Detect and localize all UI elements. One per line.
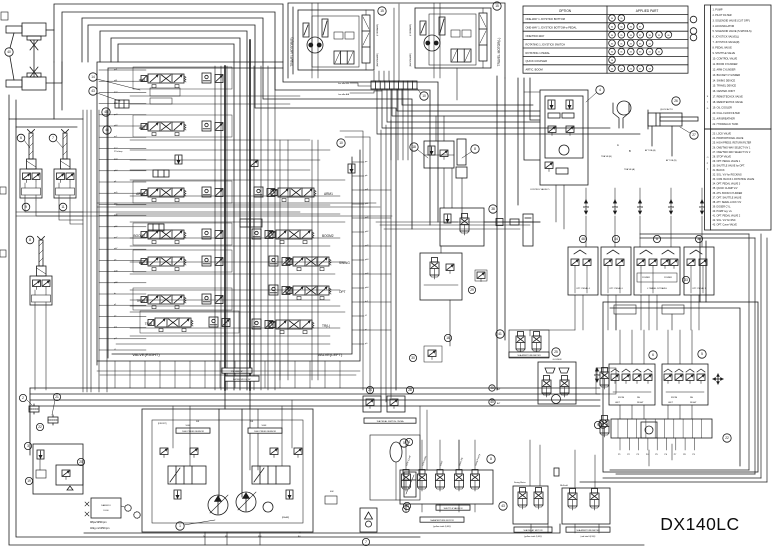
label circle 5 bbox=[400, 439, 408, 447]
label circle 44 bbox=[612, 235, 619, 242]
svg-text:B: B bbox=[629, 149, 631, 153]
svg-text:37. OPT. SHUTTLE VALVE: 37. OPT. SHUTTLE VALVE bbox=[713, 196, 742, 199]
stop valve right (9) bbox=[596, 368, 616, 395]
svg-text:2: 2 bbox=[22, 396, 24, 400]
svg-text:(FORWARD): (FORWARD) bbox=[376, 24, 379, 36]
svg-text:24: 24 bbox=[611, 69, 614, 71]
svg-text:30: 30 bbox=[611, 43, 614, 45]
label circle 15 bbox=[493, 2, 501, 10]
svg-text:ROTATING 1 JOYSTICK SWITCH: ROTATING 1 JOYSTICK SWITCH bbox=[526, 42, 566, 46]
svg-text:16. CENTER JOINT: 16. CENTER JOINT bbox=[713, 90, 736, 93]
svg-text:12. ARM CYLINDER: 12. ARM CYLINDER bbox=[713, 68, 736, 71]
svg-text:TR(L): TR(L) bbox=[322, 324, 330, 328]
svg-text:FROM: FROM bbox=[618, 397, 624, 399]
label circle 40 bbox=[5, 48, 13, 56]
svg-text:[REAR]: [REAR] bbox=[282, 516, 289, 519]
svg-text:DAEWOO: DAEWOO bbox=[101, 504, 111, 507]
svg-text:31. BLOCK: 31. BLOCK bbox=[713, 169, 725, 172]
manifold block (9/22) bbox=[611, 419, 712, 438]
svg-text:RIGHT: RIGHT bbox=[637, 402, 644, 404]
wire left feed bus verticals bbox=[83, 110, 107, 392]
svg-text:11: 11 bbox=[61, 205, 65, 209]
svg-text:A/T: A/T bbox=[497, 388, 501, 391]
label circle 38 bbox=[695, 235, 702, 242]
svg-text:ARM1: ARM1 bbox=[324, 192, 333, 196]
svg-text:RIGHT: RIGHT bbox=[690, 402, 697, 404]
svg-text:26. ONE/TWO-WAY SELECT V/V 1: 26. ONE/TWO-WAY SELECT V/V 1 bbox=[713, 146, 751, 149]
svg-text:17. REMOTECHCK VALVE: 17. REMOTECHCK VALVE bbox=[713, 96, 744, 99]
svg-text:43: 43 bbox=[91, 89, 95, 93]
svg-text:OPTION: OPTION bbox=[559, 9, 572, 13]
svg-text:23. LOCK VALVE: 23. LOCK VALVE bbox=[713, 133, 732, 136]
pilot arrows row bbox=[583, 200, 588, 214]
svg-text:24. PROPORTIONAL VALVE: 24. PROPORTIONAL VALVE bbox=[713, 137, 744, 140]
svg-text:9: 9 bbox=[602, 422, 604, 426]
wire top-left nested bus bbox=[54, 4, 438, 222]
suction channel bbox=[219, 409, 242, 497]
svg-text:42. SOL. V/V for RSC: 42. SOL. V/V for RSC bbox=[713, 219, 736, 222]
svg-text:34. OPT. PEDAL VALVE 3: 34. OPT. PEDAL VALVE 3 bbox=[713, 183, 741, 186]
svg-text:25: 25 bbox=[620, 69, 623, 71]
svg-text:ATT VB (A): ATT VB (A) bbox=[645, 149, 656, 152]
wire legend drops bbox=[517, 78, 519, 205]
wire right stub links bbox=[364, 190, 391, 330]
joystick pilot group (6) bbox=[609, 364, 655, 405]
svg-text:18: 18 bbox=[412, 145, 416, 149]
svg-text:28. STOP VALVE: 28. STOP VALVE bbox=[713, 155, 732, 158]
svg-text:22: 22 bbox=[725, 436, 729, 440]
svg-text:19: 19 bbox=[27, 479, 31, 483]
svg-text:RH: RH bbox=[690, 397, 694, 399]
svg-text:p0: p0 bbox=[365, 343, 368, 345]
svg-text:ROTATING 1 PEDAL: ROTATING 1 PEDAL bbox=[526, 51, 551, 55]
joystick valve assembly (7) bbox=[54, 130, 76, 201]
svg-text:33: 33 bbox=[639, 43, 642, 45]
label circle 38 bbox=[489, 205, 497, 213]
svg-text:30: 30 bbox=[611, 52, 614, 54]
manifold port stubs bbox=[620, 438, 694, 450]
svg-text:(FORWARD): (FORWARD) bbox=[409, 24, 412, 36]
svg-text:45: 45 bbox=[104, 110, 108, 114]
valve port stubs bbox=[99, 70, 146, 350]
wire shuttle stems bbox=[406, 440, 475, 512]
pilot motor symbol bbox=[613, 101, 631, 128]
svg-text:8. PEDAL VALVE: 8. PEDAL VALVE bbox=[713, 47, 733, 50]
engine bbox=[85, 498, 121, 518]
svg-text:pb3: pb3 bbox=[365, 259, 369, 261]
pedal valve OPT. PEDAL 6 bbox=[601, 247, 631, 295]
svg-text:t1: t1 bbox=[114, 348, 117, 351]
label circle 8 bbox=[471, 145, 479, 153]
svg-text:ONE-WAY 1 JOYSTICK BOTTOM w PE: ONE-WAY 1 JOYSTICK BOTTOM w PEDAL bbox=[526, 26, 578, 30]
svg-text:APPLIED PART: APPLIED PART bbox=[636, 9, 659, 13]
svg-text:DX140LC: DX140LC bbox=[660, 514, 739, 534]
svg-text:33: 33 bbox=[684, 278, 688, 282]
svg-text:28: 28 bbox=[611, 60, 614, 62]
svg-text:P: P bbox=[707, 163, 709, 165]
svg-text:50A RELAY MOTOR: 50A RELAY MOTOR bbox=[523, 529, 543, 532]
svg-text:10: 10 bbox=[422, 94, 426, 98]
svg-text:1: 1 bbox=[179, 524, 181, 528]
label circle 6 bbox=[17, 134, 25, 142]
svg-text:31: 31 bbox=[620, 43, 623, 45]
wire travel frame bbox=[288, 3, 505, 78]
left edge tiny ports bbox=[1, 12, 8, 20]
svg-text:DL06: DL06 bbox=[104, 510, 110, 512]
svg-text:D: D bbox=[707, 108, 709, 110]
svg-text:VALVE(LEFT): VALVE(LEFT) bbox=[318, 352, 343, 357]
wire joint links bbox=[46, 29, 54, 31]
svg-text:P8: P8 bbox=[683, 454, 686, 456]
svg-text:OPT: OPT bbox=[339, 290, 346, 294]
big frame bottom right bbox=[603, 302, 758, 472]
check valve assembly (24/28) bbox=[363, 396, 405, 412]
svg-text:38. ATT. SEDAL LOCK V/V: 38. ATT. SEDAL LOCK V/V bbox=[713, 201, 742, 204]
svg-text:35: 35 bbox=[620, 35, 623, 37]
remote valve group (43) bbox=[513, 486, 548, 524]
label circle 10 bbox=[420, 92, 428, 100]
svg-text:18. REMOTECHCK VALVE: 18. REMOTECHCK VALVE bbox=[713, 101, 744, 104]
svg-text:8: 8 bbox=[29, 238, 31, 242]
wire valve center bus bbox=[215, 66, 275, 390]
svg-text:LEFT: LEFT bbox=[668, 402, 674, 404]
regulator front bbox=[168, 466, 206, 484]
svg-text:(yellow total 4) M@: (yellow total 4) M@ bbox=[524, 535, 542, 538]
svg-text:RH: RH bbox=[637, 397, 641, 399]
svg-text:32: 32 bbox=[630, 52, 633, 54]
svg-text:35: 35 bbox=[620, 27, 623, 29]
svg-text:37: 37 bbox=[639, 27, 642, 29]
svg-text:40K: 40K bbox=[330, 491, 334, 493]
regulator rear bbox=[252, 466, 290, 484]
svg-text:QUICK ACTU: QUICK ACTU bbox=[660, 108, 673, 111]
svg-text:22: 22 bbox=[38, 425, 42, 429]
aux spool small bbox=[153, 170, 169, 177]
svg-text:43. OPT. Cover VALVE: 43. OPT. Cover VALVE bbox=[713, 224, 738, 227]
svg-text:A2: A2 bbox=[250, 419, 254, 423]
svg-text:33. COM. BLOCK 1 ROTATING VALV: 33. COM. BLOCK 1 ROTATING VALVE bbox=[713, 178, 755, 181]
svg-text:15A PEDAL SWITCH ON MA: 15A PEDAL SWITCH ON MA bbox=[376, 420, 404, 423]
solenoid block (18) bbox=[424, 139, 467, 178]
svg-text:[FRONT]: [FRONT] bbox=[158, 423, 167, 425]
svg-text:98ps/1950rpm: 98ps/1950rpm bbox=[90, 520, 107, 524]
small box 4B bbox=[115, 100, 129, 108]
pedal valve L.TRAVEL R.TRAVEL bbox=[634, 247, 680, 295]
svg-text:43: 43 bbox=[648, 69, 651, 71]
legend option table bbox=[523, 6, 688, 73]
svg-text:Dr: Dr bbox=[203, 535, 206, 538]
svg-text:9: 9 bbox=[25, 205, 27, 209]
spool valve BOOM2 (left valve bank) bbox=[269, 230, 314, 244]
svg-text:low idle A/A: low idle A/A bbox=[338, 93, 349, 96]
svg-text:38: 38 bbox=[648, 35, 651, 37]
svg-text:8: 8 bbox=[474, 147, 476, 151]
svg-text:SWING: SWING bbox=[339, 261, 350, 265]
svg-text:ONE/TWO-WAY: ONE/TWO-WAY bbox=[526, 34, 545, 38]
svg-text:50A APERTURE METER: 50A APERTURE METER bbox=[517, 354, 541, 357]
svg-text:19. OIL COOLER: 19. OIL COOLER bbox=[713, 107, 733, 110]
wire left edge feeds bbox=[9, 95, 83, 119]
wire pump bottom ports bbox=[205, 532, 300, 545]
label circle 15 bbox=[378, 7, 386, 15]
svg-text:6. JOYSTICK VALVE(L): 6. JOYSTICK VALVE(L) bbox=[713, 36, 740, 39]
return filter (23) bbox=[404, 472, 416, 497]
joystick valve assembly (6) bbox=[20, 130, 42, 201]
svg-text:36: 36 bbox=[630, 35, 633, 37]
svg-text:30. SHUTTLE VALVE for OPT.: 30. SHUTTLE VALVE for OPT. bbox=[713, 164, 746, 167]
filter (21/22) bbox=[48, 415, 58, 425]
wire mid horizontals bbox=[16, 203, 540, 229]
svg-text:S: S bbox=[707, 96, 709, 98]
svg-text:A1: A1 bbox=[196, 419, 200, 423]
svg-text:P3: P3 bbox=[637, 454, 640, 456]
svg-text:39. DOSER CYL.: 39. DOSER CYL. bbox=[713, 205, 732, 208]
svg-text:41: 41 bbox=[648, 43, 651, 45]
svg-text:(yellow total 4) M@: (yellow total 4) M@ bbox=[433, 525, 451, 528]
label circle 11 bbox=[59, 203, 67, 211]
svg-text:26: 26 bbox=[674, 99, 678, 103]
check valve mid bbox=[175, 155, 182, 164]
svg-text:pa: pa bbox=[365, 161, 368, 163]
control valve Pi block (4) bbox=[540, 90, 588, 185]
svg-text:VALVE(RIGHT): VALVE(RIGHT) bbox=[132, 352, 160, 357]
svg-text:35. QUICK CLAMP V/V: 35. QUICK CLAMP V/V bbox=[713, 187, 738, 190]
svg-text:pt: pt bbox=[365, 328, 367, 331]
svg-text:L.TRAVEL R.TRAVEL: L.TRAVEL R.TRAVEL bbox=[647, 287, 668, 290]
wire right edge bends bbox=[340, 131, 363, 390]
pilot filter block (3/19/20) bbox=[33, 444, 83, 494]
svg-text:40kg.m/1350rpm: 40kg.m/1350rpm bbox=[90, 526, 109, 530]
svg-text:ARTIC. BOOM: ARTIC. BOOM bbox=[526, 68, 543, 72]
svg-text:25: 25 bbox=[554, 350, 558, 354]
lock valve bottom bbox=[360, 508, 377, 532]
svg-text:POWER: POWER bbox=[664, 277, 672, 279]
svg-text:41. OPT. PEDAL VALVE 2: 41. OPT. PEDAL VALVE 2 bbox=[713, 215, 741, 218]
svg-text:3. SOLENOID VALVE (CUT OFF): 3. SOLENOID VALVE (CUT OFF) bbox=[713, 19, 750, 22]
svg-text:POWER: POWER bbox=[642, 277, 650, 279]
svg-text:36. ATS. BOOM CYLINDER: 36. ATS. BOOM CYLINDER bbox=[713, 192, 743, 195]
svg-text:5: 5 bbox=[403, 441, 405, 445]
svg-text:3: 3 bbox=[27, 444, 29, 448]
svg-text:38: 38 bbox=[491, 207, 495, 211]
wire remotes feeds bbox=[530, 440, 540, 486]
wire horizontal buses under valve bbox=[30, 388, 600, 406]
svg-text:pt2: pt2 bbox=[114, 337, 118, 340]
label circle 26 bbox=[672, 97, 680, 105]
wire pump feeds bbox=[224, 390, 226, 409]
svg-text:SWING SPOOL NP: SWING SPOOL NP bbox=[233, 379, 252, 381]
label circle 1 bbox=[176, 522, 184, 530]
svg-text:7. JOYSTICK VALVE(R): 7. JOYSTICK VALVE(R) bbox=[713, 41, 740, 44]
svg-text:(red total 4) M@: (red total 4) M@ bbox=[580, 535, 595, 538]
accumulator block (38) bbox=[440, 208, 484, 246]
wire strip risers bbox=[374, 4, 399, 81]
svg-text:2. PILOT FILTER: 2. PILOT FILTER bbox=[713, 14, 732, 17]
pilot cross arrows right bbox=[594, 368, 599, 382]
pilot line labels bbox=[222, 368, 252, 373]
svg-text:22. HYDRAULIC TANK: 22. HYDRAULIC TANK bbox=[713, 123, 739, 126]
svg-text:26: 26 bbox=[630, 69, 633, 71]
svg-text:42: 42 bbox=[658, 52, 661, 54]
label circle 10 bbox=[337, 139, 345, 147]
wire joystick drops bbox=[25, 200, 83, 212]
svg-text:P9: P9 bbox=[692, 454, 695, 456]
svg-text:O: O bbox=[707, 157, 709, 159]
svg-text:28: 28 bbox=[408, 388, 412, 392]
quick coupler cylinder bbox=[648, 110, 698, 129]
svg-text:40. PUMP reg. v/v: 40. PUMP reg. v/v bbox=[713, 210, 733, 213]
spool valve TR(L) (left valve bank) bbox=[269, 320, 314, 334]
svg-text:29. OPT. PEDAL VALVE 1: 29. OPT. PEDAL VALVE 1 bbox=[713, 160, 741, 163]
svg-text:Swing Motor: Swing Motor bbox=[514, 481, 526, 484]
svg-text:16: 16 bbox=[446, 336, 450, 340]
svg-text:CONTROL VALVE Pi: CONTROL VALVE Pi bbox=[530, 188, 550, 191]
svg-text:24: 24 bbox=[368, 388, 372, 392]
wire right vertical bus bbox=[749, 234, 767, 482]
svg-text:5: 5 bbox=[701, 352, 703, 356]
svg-text:31: 31 bbox=[620, 52, 623, 54]
svg-text:1. PUMP: 1. PUMP bbox=[713, 8, 723, 11]
label circle 41 bbox=[496, 330, 504, 338]
svg-text:SHUTTLE VALVE M: SHUTTLE VALVE M bbox=[444, 507, 463, 510]
main control valve outer frames bbox=[97, 62, 283, 365]
wire valve inner links bbox=[116, 96, 345, 344]
svg-text:P6: P6 bbox=[665, 454, 668, 456]
svg-text:21: 21 bbox=[55, 395, 59, 399]
svg-text:TRA VB (A): TRA VB (A) bbox=[624, 168, 635, 171]
svg-text:A/T: A/T bbox=[497, 402, 501, 405]
svg-text:27. ONE/TWO-WAY SELECT V/V 2: 27. ONE/TWO-WAY SELECT V/V 2 bbox=[713, 151, 751, 154]
svg-text:OPT. PEDAL 4: OPT. PEDAL 4 bbox=[576, 287, 591, 290]
svg-text:ATT VB (B): ATT VB (B) bbox=[666, 159, 677, 162]
svg-text:QUICK COUPLER: QUICK COUPLER bbox=[526, 59, 548, 63]
svg-text:27: 27 bbox=[639, 69, 642, 71]
svg-text:48: 48 bbox=[581, 237, 585, 241]
pedal valve OPT. PEDAL 4 bbox=[568, 247, 598, 295]
svg-text:dr: dr bbox=[114, 292, 116, 295]
svg-text:7: 7 bbox=[365, 540, 367, 544]
svg-text:(BACKWARD): (BACKWARD) bbox=[409, 53, 412, 67]
svg-text:6: 6 bbox=[20, 136, 22, 140]
svg-text:pb2: pb2 bbox=[365, 231, 369, 233]
wire strip staircase to right bbox=[377, 89, 640, 134]
parts list STD bbox=[705, 5, 772, 230]
svg-text:P7: P7 bbox=[674, 454, 677, 456]
travel motor (L) bbox=[415, 8, 491, 68]
svg-text:27: 27 bbox=[692, 133, 696, 137]
svg-text:37: 37 bbox=[639, 35, 642, 37]
svg-text:ONE-WAY 1 JOYSTICK BOTTOM: ONE-WAY 1 JOYSTICK BOTTOM bbox=[526, 17, 565, 21]
wire couplers bbox=[484, 221, 540, 223]
svg-text:35: 35 bbox=[620, 18, 623, 20]
svg-text:GOLDEN: GOLDEN bbox=[553, 359, 562, 361]
svg-text:32: 32 bbox=[630, 43, 633, 45]
wire valve bottom margin lines bbox=[97, 370, 360, 372]
label circle 48 bbox=[579, 235, 586, 242]
svg-text:P5: P5 bbox=[655, 454, 658, 456]
remote valve group right bbox=[562, 488, 610, 524]
svg-text:50A APERTURE MOTOR: 50A APERTURE MOTOR bbox=[430, 519, 454, 522]
svg-text:10: 10 bbox=[339, 141, 343, 145]
svg-text:15: 15 bbox=[495, 4, 499, 8]
svg-text:40: 40 bbox=[667, 35, 670, 37]
svg-text:7: 7 bbox=[52, 136, 54, 140]
joystick pilot group (5) bbox=[662, 364, 708, 405]
svg-text:15: 15 bbox=[380, 9, 384, 13]
svg-text:P2: P2 bbox=[627, 454, 630, 456]
svg-text:t2: t2 bbox=[365, 314, 368, 317]
label circle 8 bbox=[26, 236, 34, 244]
vertical cyl right of block bbox=[523, 214, 533, 246]
svg-text:4: 4 bbox=[599, 88, 601, 92]
coupling gears bbox=[125, 505, 131, 511]
svg-text:T: T bbox=[707, 169, 709, 171]
port markers 40 bbox=[489, 385, 495, 391]
wire bottom right risers bbox=[649, 444, 672, 466]
svg-text:50A APERTURE METER: 50A APERTURE METER bbox=[576, 529, 600, 532]
svg-text:500K PRESS SENSOR: 500K PRESS SENSOR bbox=[254, 431, 276, 433]
travel motor (R) bbox=[298, 10, 374, 70]
svg-text:P1: P1 bbox=[618, 454, 621, 456]
label circle 9 bbox=[22, 203, 30, 211]
pedal valve OPT. PEDAL 1 bbox=[684, 247, 714, 295]
spool valve SWING (left valve bank) bbox=[286, 257, 331, 271]
label circle 7 bbox=[49, 134, 57, 142]
svg-text:43: 43 bbox=[501, 504, 505, 508]
svg-text:pb4: pb4 bbox=[365, 287, 369, 289]
svg-text:40: 40 bbox=[490, 400, 494, 404]
svg-text:32. SOL. V/V for ROCKING: 32. SOL. V/V for ROCKING bbox=[713, 174, 742, 177]
svg-text:pb: pb bbox=[365, 175, 368, 177]
rocking block (29) bbox=[420, 253, 462, 300]
svg-text:40: 40 bbox=[7, 50, 11, 54]
label circle 8 bbox=[487, 455, 495, 463]
svg-text:34: 34 bbox=[611, 35, 614, 37]
center joint (turning joint) bbox=[6, 23, 46, 90]
cross marker bbox=[713, 374, 723, 384]
svg-text:OPT. PEDAL 1: OPT. PEDAL 1 bbox=[692, 287, 707, 290]
svg-text:9. SHUTTLE VALVE: 9. SHUTTLE VALVE bbox=[713, 52, 736, 55]
svg-text:OPT. PEDAL 6: OPT. PEDAL 6 bbox=[609, 287, 624, 290]
svg-text:14: 14 bbox=[91, 75, 95, 79]
svg-text:14. SWING DEVICE: 14. SWING DEVICE bbox=[713, 79, 736, 82]
terminal strip bbox=[371, 81, 417, 89]
svg-text:41: 41 bbox=[498, 332, 502, 336]
accumulator (4) bbox=[370, 435, 420, 500]
label circle 1 bbox=[403, 506, 410, 513]
shuttle valve block (5 solenoids) bbox=[400, 470, 493, 505]
label circle 27 bbox=[690, 131, 698, 139]
svg-text:33: 33 bbox=[639, 52, 642, 54]
wire joy group stems bbox=[620, 330, 692, 419]
svg-text:34: 34 bbox=[611, 27, 614, 29]
valve 16/30 bbox=[424, 346, 442, 362]
svg-text:8: 8 bbox=[490, 457, 492, 461]
svg-text:4. ACCUMULATOR: 4. ACCUMULATOR bbox=[713, 25, 735, 28]
svg-text:A0: A0 bbox=[298, 535, 301, 538]
main pump assembly bbox=[142, 409, 313, 532]
wire valve bottom drops bbox=[115, 361, 340, 388]
label circle 18 bbox=[410, 143, 418, 151]
svg-text:A: A bbox=[617, 143, 619, 147]
svg-text:11. BOOM CYLINDER: 11. BOOM CYLINDER bbox=[713, 63, 738, 66]
svg-text:500K: 500K bbox=[262, 425, 267, 427]
swing motor block bbox=[538, 362, 576, 404]
svg-text:20: 20 bbox=[79, 460, 83, 464]
svg-text:6: 6 bbox=[652, 353, 654, 357]
svg-text:T: T bbox=[707, 102, 709, 104]
wire bottom lines bbox=[84, 524, 560, 533]
